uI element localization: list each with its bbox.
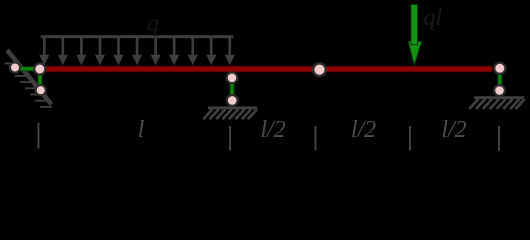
right support ground hatches <box>469 99 525 109</box>
svg-text:l/2: l/2 <box>260 117 285 143</box>
middle support lower pin <box>227 95 238 106</box>
middle support ground bar <box>208 106 257 109</box>
wall hatch strokes <box>5 64 52 107</box>
svg-text:l: l <box>138 117 145 143</box>
svg-text:ql: ql <box>423 4 442 31</box>
beam internal hinge <box>313 63 326 76</box>
beam <box>46 66 493 72</box>
dimension tick 3 <box>315 126 317 151</box>
point load arrow head (ql) <box>408 41 422 65</box>
pin A (beam left end hinge) <box>34 63 45 74</box>
pin C (on wall) <box>36 85 46 95</box>
right support upper pin (beam right end hinge) <box>494 63 505 74</box>
point load arrow shaft <box>411 5 418 45</box>
link horizontal (left support link B-A) <box>14 67 40 71</box>
svg-text:q: q <box>147 11 159 37</box>
dimension tick 4 <box>409 126 411 151</box>
inclined wall (left fixed surface) <box>7 50 52 105</box>
right support lower pin <box>494 85 505 96</box>
distributed load top bar <box>41 35 234 38</box>
right support ground bar <box>474 96 524 99</box>
middle support ground hatches <box>203 109 257 119</box>
svg-text:l/2: l/2 <box>351 117 376 143</box>
pin B (on wall) <box>10 62 20 72</box>
right support link <box>498 70 502 89</box>
distributed load arrows <box>39 38 235 66</box>
link vertical (left support link A-C) <box>38 69 42 90</box>
dimension tick 2 <box>229 126 231 151</box>
dimension tick 5 <box>498 126 500 151</box>
svg-text:l/2: l/2 <box>441 117 466 143</box>
middle support link <box>230 79 234 99</box>
middle support upper pin <box>227 72 238 83</box>
dimension tick 1 <box>38 123 40 149</box>
